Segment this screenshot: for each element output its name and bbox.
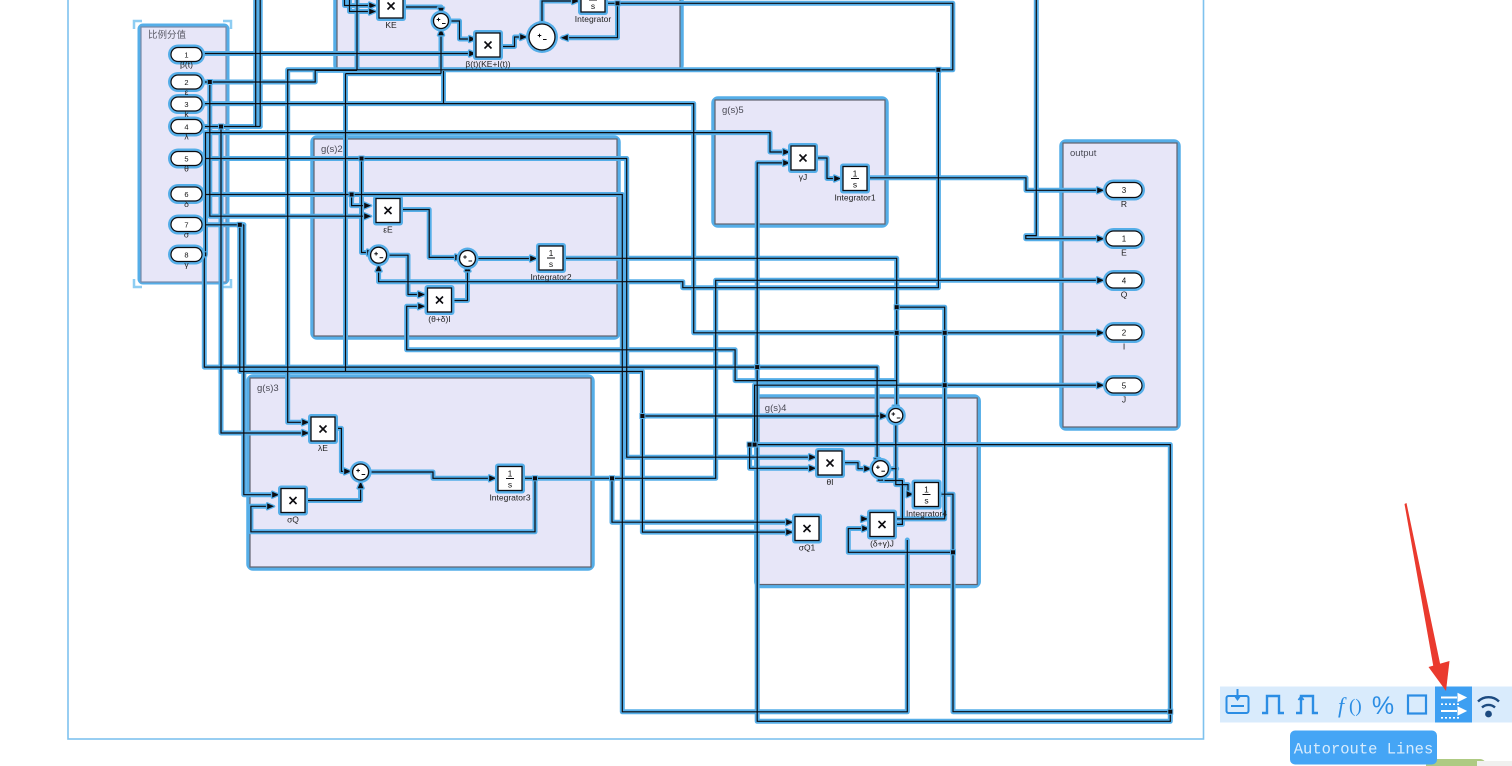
svg-text:1: 1 (549, 248, 554, 258)
junction (533, 476, 537, 480)
arrowhead (369, 9, 376, 15)
input port 7 (σ) (168, 215, 205, 235)
svg-text:σQ1: σQ1 (799, 543, 816, 553)
wire port5 theta line (202, 159, 812, 458)
arrowhead (783, 160, 790, 166)
junction (895, 331, 899, 335)
input port 8 (γ) (168, 245, 205, 265)
wire Integrator feedback (563, 3, 618, 37)
arrowhead (465, 265, 471, 272)
wire x357 riser (356, 0, 358, 70)
wire R line (867, 178, 1100, 191)
junction (350, 193, 354, 197)
arrowhead (874, 458, 880, 465)
group selection corner brackets (134, 21, 231, 287)
multiplier sigmaQ (278, 486, 308, 525)
arrowhead (267, 503, 274, 509)
wire gamma lower loop (757, 367, 1170, 721)
svg-text:(δ+γ)J: (δ+γ)J (870, 539, 894, 549)
wire J feedback to deltagammaJ (848, 529, 953, 553)
svg-text:4: 4 (184, 122, 188, 131)
junction (951, 550, 955, 554)
multiplier epsilonE (373, 196, 403, 235)
arrowhead (438, 8, 444, 15)
wire Sum3 out to Integrator3 (369, 472, 492, 478)
junction (943, 383, 947, 387)
wire lambdaE out to Sum3 (335, 428, 347, 471)
svg-text:output: output (1070, 148, 1097, 159)
wire port1 to B(t)(KE+I(t)) in2 (202, 53, 470, 55)
arrowhead (1097, 277, 1104, 283)
svg-text:1: 1 (853, 169, 858, 179)
wire x260 riser (259, 0, 261, 127)
wire port7 sigma line (202, 224, 244, 226)
wire I feedback loop (407, 306, 897, 380)
wire Sum5 out (888, 468, 896, 470)
wire sum A to B(t) block in1 (449, 21, 471, 39)
wire epsE out to Sum2 (400, 210, 458, 258)
svg-text:θI: θI (826, 477, 833, 487)
multiplier KE (376, 0, 406, 30)
wire Integrator2 out I net (563, 258, 897, 409)
sum Sum1 (368, 244, 390, 266)
arrowhead (1097, 382, 1104, 388)
toolbar icon square (1408, 696, 1426, 714)
svg-text:(): () (1349, 696, 1362, 717)
junction (219, 125, 223, 129)
arrowhead (376, 265, 382, 272)
wire port6 delta line (202, 195, 907, 712)
wire y132 run to gammaJ in1 (206, 133, 787, 255)
svg-text:R: R (1121, 199, 1127, 209)
svg-text:σQ: σQ (287, 515, 299, 525)
junction (943, 331, 947, 335)
multiplier thetaI (815, 448, 845, 487)
svg-text:Integrator3: Integrator3 (489, 493, 530, 503)
arrowhead (358, 482, 364, 489)
wire lambda drop to lambdaE in2 (221, 127, 303, 434)
wire sigma to sigmaQ1 in2 (240, 225, 789, 532)
model canvas frame (68, 0, 1204, 739)
toolbar icon pulse (1262, 696, 1284, 713)
svg-text:γJ: γJ (799, 172, 808, 182)
svg-text:Integrator4: Integrator4 (906, 509, 947, 519)
arrowhead (369, 3, 376, 9)
input port 6 (δ) (168, 184, 205, 204)
multiplier sigmaQ1 (792, 514, 822, 553)
subsystem output (1062, 142, 1178, 428)
svg-text:Integrator1: Integrator1 (834, 193, 875, 203)
svg-text:g(s)2: g(s)2 (321, 144, 343, 155)
svg-text:s: s (549, 259, 553, 269)
arrowhead (862, 526, 869, 532)
arrowhead (834, 176, 841, 182)
arrowhead (786, 529, 793, 535)
svg-text:θ: θ (184, 164, 189, 174)
junction (202, 252, 206, 256)
svg-text:1: 1 (508, 469, 513, 479)
arrowhead (489, 475, 496, 481)
arrowhead (367, 250, 374, 256)
wire epsilon drop to epsE in2 (210, 82, 367, 216)
svg-text:εE: εE (383, 225, 393, 235)
svg-text:I: I (1123, 342, 1125, 352)
wire port4 line (202, 126, 260, 128)
junction (640, 414, 644, 418)
subsystem g(s)3 (249, 377, 592, 568)
multiplier (delta+gamma)J (867, 510, 897, 549)
wire Integrator4 out J loop (939, 494, 1171, 712)
svg-text:KE: KE (385, 20, 397, 30)
svg-text:Integrator2: Integrator2 (530, 272, 571, 282)
wire theta branch to Sum1 (362, 159, 371, 253)
junction (610, 476, 614, 480)
arrowhead (364, 203, 371, 209)
wire E drop to Sum1 (379, 70, 939, 288)
svg-text:1: 1 (1122, 235, 1127, 244)
wire delta branch to epsE in1 (352, 195, 367, 206)
multiplier gammaJ (788, 143, 818, 182)
arrowhead (572, 0, 579, 4)
svg-text:2: 2 (1122, 329, 1127, 338)
svg-text:δ: δ (184, 199, 189, 209)
svg-text:E: E (1121, 248, 1127, 258)
wire port3 k long line (202, 104, 1100, 333)
wire Sum4 left feed (642, 415, 883, 417)
multiplier lambdaE (308, 414, 338, 453)
arrowhead (302, 430, 309, 436)
svg-text:4: 4 (1122, 277, 1127, 286)
sum Sum2 (457, 248, 479, 270)
svg-text:s: s (924, 496, 928, 506)
red annotation arrow (1405, 503, 1442, 670)
wire gamma riser to gammaJ in2 (757, 163, 786, 367)
svg-text:Autoroute Lines: Autoroute Lines (1294, 741, 1434, 759)
toolbar strip (1220, 687, 1512, 723)
svg-text:%: % (1372, 692, 1394, 720)
arrowhead (455, 255, 462, 261)
svg-text:3: 3 (184, 100, 188, 109)
arrowhead (809, 454, 816, 460)
toolbar highlighted button (autoroute) (1435, 687, 1472, 723)
integrator Integrator4 (906, 480, 947, 519)
svg-text:比例分值: 比例分值 (148, 29, 187, 41)
wire E port feed (1026, 0, 1100, 239)
wire sigmaQ out to Sum3 (305, 485, 361, 501)
junction (238, 223, 242, 227)
arrowhead (809, 465, 816, 471)
svg-text:λE: λE (318, 443, 328, 453)
arrowhead (418, 303, 425, 309)
junction (936, 68, 940, 72)
svg-text:g(s)5: g(s)5 (722, 105, 744, 116)
arrowhead (907, 491, 914, 497)
wire y73 run (346, 73, 442, 75)
arrowhead (880, 413, 887, 419)
svg-text:1: 1 (924, 485, 929, 495)
junction (208, 80, 212, 84)
arrowhead (878, 474, 884, 481)
integrator Integrator1 (834, 164, 875, 203)
svg-text:5: 5 (1122, 382, 1127, 391)
sum big (E eq) (526, 21, 558, 53)
wire Q feedback to sigmaQ in2 (251, 478, 535, 532)
wire KE in1 feed (345, 0, 372, 6)
output port 5 (J) (1103, 375, 1145, 405)
svg-text:s: s (508, 480, 512, 490)
output port 3 (R) (1103, 180, 1145, 210)
arrowhead (438, 29, 444, 36)
sum Sum5 (869, 458, 891, 480)
arrowhead (1097, 330, 1104, 336)
subsystem g(s)4 (757, 397, 978, 586)
svg-text:3: 3 (1122, 186, 1127, 195)
tooltip Autoroute Lines (1290, 731, 1437, 765)
toolbar icon wifi (1478, 697, 1499, 707)
wire port2 line (202, 70, 357, 82)
arrowhead (302, 419, 309, 425)
svg-text:5: 5 (184, 154, 188, 163)
green indicator bottom right (1426, 759, 1486, 766)
wire Integrator out long E run (288, 3, 953, 422)
wire Sum1 out to thetadeltaI (386, 255, 421, 294)
wire port8 gamma line (202, 254, 877, 461)
subsystem g(s)5 (714, 99, 886, 225)
wire x255 riser (255, 0, 257, 127)
subsystem g(s)2 (313, 138, 618, 337)
wire I net jog right (864, 307, 945, 519)
svg-text:8: 8 (184, 250, 188, 259)
wire big sum to Integrator (542, 1, 574, 22)
junction (616, 1, 620, 5)
multiplier B(t)(KE+I(t)) (465, 30, 510, 69)
input port 4 (λ) (168, 117, 205, 137)
svg-text:J: J (1122, 395, 1126, 405)
toolbar icon autoroute lines (white) (1441, 694, 1466, 718)
input port 3 (k) (168, 94, 205, 114)
input port 2 (ε) (168, 72, 205, 92)
arrowhead (344, 469, 351, 475)
integrator Integrator (575, 0, 612, 24)
integrator Integrator3 (489, 464, 530, 503)
junction (1168, 710, 1172, 714)
svg-text:g(s)4: g(s)4 (765, 403, 787, 414)
wire KE in2 feed (350, 0, 372, 12)
junction (753, 443, 757, 447)
input port 5 (θ) (168, 149, 205, 169)
arrowhead (469, 51, 476, 57)
wire KE out to sum A top (403, 7, 441, 12)
junction (748, 443, 752, 447)
wire sigma to sigmaQ in1 (244, 225, 275, 495)
svg-text:Integrator: Integrator (575, 14, 612, 24)
arrowhead (561, 35, 568, 41)
arrowhead (783, 149, 790, 155)
arrowhead (1097, 187, 1104, 193)
junction (755, 365, 759, 369)
wire Sum4 out chain (896, 423, 910, 495)
arrowhead (364, 213, 371, 219)
arrowhead (520, 34, 527, 40)
wire thetaI out to Sum5 (842, 463, 867, 469)
svg-text:Q: Q (1121, 290, 1128, 300)
wire x345 drop (345, 74, 347, 372)
input port 1 (β(t)) (168, 45, 205, 65)
arrowhead (272, 492, 279, 498)
junction (895, 305, 899, 309)
wire into sum A bottom (440, 31, 442, 74)
wire Sum2 out to Integrator2 (476, 258, 534, 260)
svg-text:2: 2 (184, 78, 188, 87)
svg-text:1: 1 (184, 50, 188, 59)
svg-text:(θ+δ)I: (θ+δ)I (428, 314, 450, 324)
svg-text:ε: ε (185, 87, 189, 97)
wires glow layer (202, 0, 1170, 721)
sum junction A (431, 11, 452, 32)
svg-text:g(s)3: g(s)3 (257, 383, 279, 394)
wire thetadeltaI out to Sum2 (452, 268, 468, 301)
multiplier (theta+delta)I (425, 285, 455, 324)
wire thetaI in2 feed (750, 445, 812, 469)
wire Q branch to sigmaQ1 in1 (612, 478, 789, 522)
sum Sum4 (886, 406, 906, 426)
arrowhead (864, 466, 871, 472)
arrowhead (530, 256, 537, 262)
svg-text:β(t)(KE+I(t)): β(t)(KE+I(t)) (465, 59, 510, 69)
output port 2 (I) (1103, 322, 1145, 352)
output port 1 (E) (1103, 228, 1145, 258)
wire J port loop (755, 385, 1171, 712)
output port 4 (Q) (1103, 270, 1145, 300)
arrowhead (418, 292, 425, 298)
wire gammaJ out to Integrator1 (815, 158, 837, 179)
sum Sum3 (350, 461, 372, 483)
arrowhead (1097, 236, 1104, 242)
svg-text:σ: σ (184, 230, 190, 240)
wire deltagammaJ out loop (880, 478, 902, 525)
svg-text:7: 7 (184, 220, 188, 229)
svg-text:β(t): β(t) (180, 60, 193, 70)
integrator Integrator2 (530, 243, 571, 282)
toolbar icon pulse with arrow (1296, 696, 1318, 713)
subsystem S1 (top) (336, 0, 681, 69)
toolbar icon save/import (1227, 689, 1249, 713)
svg-text:s: s (853, 180, 857, 190)
svg-text:s: s (591, 1, 595, 11)
junction (360, 157, 364, 161)
svg-text:6: 6 (184, 190, 188, 199)
wire k-branch riser (443, 71, 445, 104)
group 比例分值 (input group) (140, 26, 227, 282)
wire B(t) out to big sum (501, 37, 521, 47)
arrowhead (893, 406, 899, 413)
arrowhead (861, 516, 868, 522)
arrowhead (786, 519, 793, 525)
wire Integrator3 out Q line (522, 280, 1100, 478)
arrowhead (469, 36, 476, 42)
